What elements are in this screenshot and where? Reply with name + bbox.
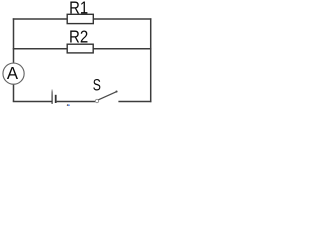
wire: bottom rail left segment (corner to battery) bbox=[13, 101, 52, 103]
ammeter A circle bbox=[3, 63, 24, 84]
wire: bottom rail middle segment (battery to switch) bbox=[57, 101, 96, 103]
switch S blade tip bbox=[115, 91, 117, 93]
wire: bottom rail right segment (switch to corner) bbox=[118, 101, 151, 103]
switch S pivot circle bbox=[95, 99, 98, 102]
resistor R2 box bbox=[67, 44, 93, 53]
battery short plate (negative) bbox=[55, 95, 57, 103]
speck artifact (brown) bbox=[67, 104, 69, 106]
wire: top rail (R1 branch) bbox=[13, 18, 152, 20]
svg-text:S: S bbox=[93, 77, 101, 95]
svg-text:R1: R1 bbox=[69, 0, 88, 18]
wire: R2 middle rail bbox=[13, 48, 152, 50]
svg-text:A: A bbox=[7, 63, 19, 84]
battery long plate (positive) bbox=[51, 89, 53, 104]
svg-text:R2: R2 bbox=[69, 27, 88, 46]
speck artifact (blue) bbox=[68, 104, 70, 106]
background bbox=[0, 0, 153, 111]
switch S blade bbox=[98, 91, 117, 100]
resistor R1 box bbox=[67, 14, 93, 23]
wire: right vertical bbox=[150, 18, 152, 102]
wire: left vertical bbox=[13, 18, 15, 101]
